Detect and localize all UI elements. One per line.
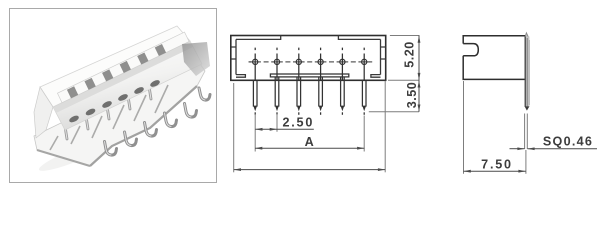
left wall window ticks bbox=[231, 47, 236, 59]
extension lines front view bbox=[234, 36, 420, 173]
connector right end cap bbox=[182, 42, 210, 76]
center bar bbox=[270, 74, 348, 77]
ext bottom-right / 3.50 bbox=[384, 81, 386, 173]
flange feet notches bbox=[50, 85, 168, 150]
connector straight pins on flange bbox=[65, 83, 152, 139]
ext housing top right bbox=[390, 35, 420, 37]
svg-text:3.50: 3.50 bbox=[405, 82, 419, 109]
ext housing bottom right bbox=[388, 79, 420, 81]
housing right inner wall bbox=[380, 39, 382, 74]
housing top inner wall right bbox=[338, 36, 380, 40]
connector top face bbox=[40, 26, 190, 107]
pin 5 bbox=[340, 48, 345, 115]
housing top inner wall left bbox=[236, 36, 281, 40]
pin 2 bbox=[274, 48, 279, 115]
pins front view bbox=[253, 48, 367, 115]
dimension 2.50 bbox=[255, 128, 314, 131]
side view extension lines bbox=[464, 81, 528, 174]
pin 4 bbox=[318, 48, 323, 115]
ext body left bbox=[463, 81, 465, 174]
ext pin6 bbox=[363, 116, 365, 152]
connector flange / base bbox=[34, 58, 205, 166]
connector left end face bbox=[34, 87, 53, 138]
pin 1 bbox=[253, 48, 258, 115]
housing left inner wall bbox=[235, 39, 237, 74]
ext pin1 bbox=[254, 114, 256, 152]
front face shading under ridge bbox=[53, 41, 193, 113]
ext bottom-left bbox=[233, 83, 235, 172]
side notch bbox=[463, 44, 478, 56]
svg-text:SQ0.46: SQ0.46 bbox=[543, 135, 593, 149]
horizontal centerline through circles bbox=[249, 61, 373, 63]
side body outline bbox=[463, 36, 525, 80]
connector front face bbox=[53, 41, 202, 130]
right wall window ticks bbox=[381, 47, 386, 59]
dimension 3.50 bbox=[418, 80, 421, 112]
bottom-right step bbox=[371, 75, 381, 78]
ext pin center down bbox=[525, 150, 527, 174]
dimension B (unlabeled bottom width) bbox=[234, 168, 386, 171]
pin tapers bbox=[253, 106, 366, 112]
dimension 5.20 bbox=[418, 36, 421, 81]
svg-text:5.20: 5.20 bbox=[403, 41, 417, 68]
dimension A bbox=[255, 147, 364, 150]
svg-text:2.50: 2.50 bbox=[282, 116, 314, 130]
dimension SQ0.46 bbox=[510, 147, 598, 150]
pin 3 bbox=[296, 48, 301, 115]
svg-text:7.50: 7.50 bbox=[481, 157, 513, 171]
dimension 7.50 bbox=[464, 170, 526, 173]
front face slot holes bbox=[68, 79, 161, 124]
connector pins (bent hooks) bbox=[105, 88, 211, 155]
flange under-shadow edge bbox=[90, 86, 197, 166]
connector photo: ground shadow bbox=[37, 132, 120, 176]
ridge teeth battlement bbox=[57, 32, 189, 103]
housing outline bbox=[231, 36, 386, 81]
side pin bbox=[525, 33, 530, 111]
pin 6 bbox=[362, 48, 367, 115]
svg-text:A: A bbox=[305, 135, 314, 149]
ext pin2 bbox=[276, 114, 278, 132]
ext pin left edge bbox=[524, 114, 526, 150]
bottom-left step bbox=[236, 75, 245, 78]
photo frame bbox=[10, 9, 217, 183]
ext pin-tip level bbox=[369, 111, 419, 113]
ext pin right edge bbox=[526, 114, 528, 150]
